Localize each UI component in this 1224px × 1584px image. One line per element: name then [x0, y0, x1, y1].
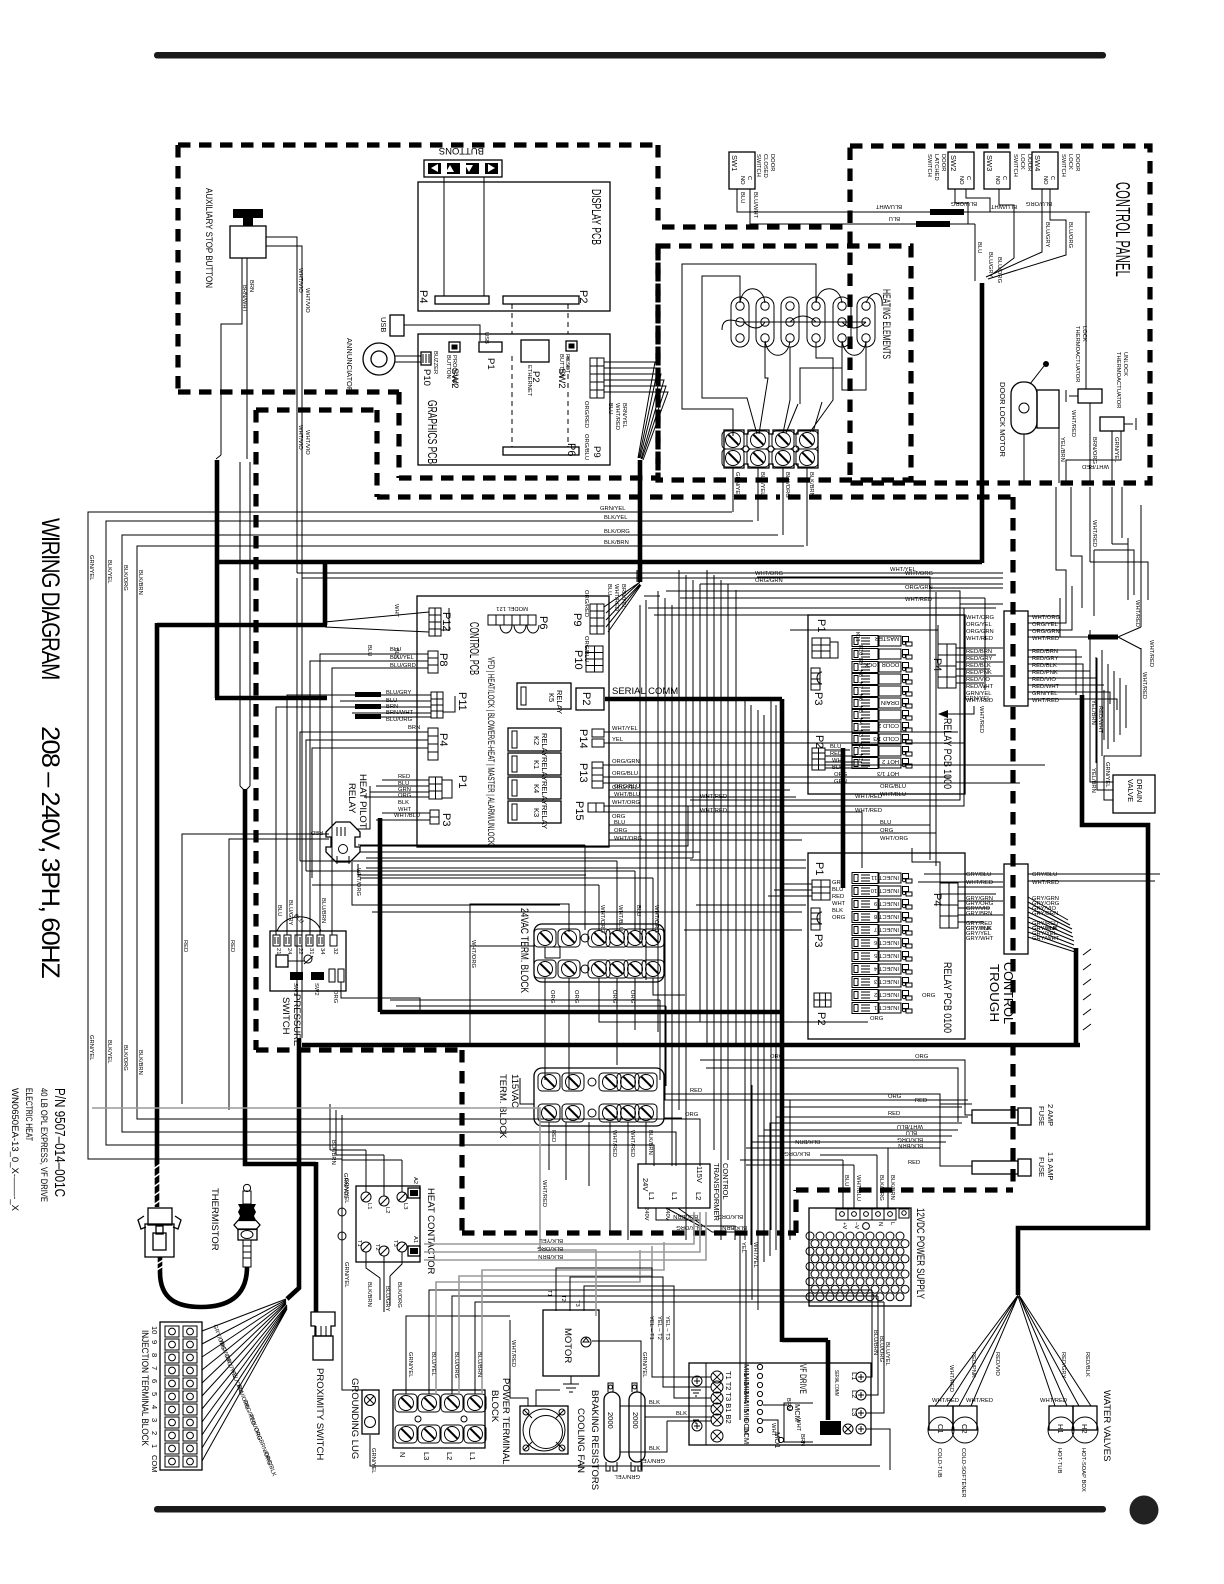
- svg-text:P8: P8: [437, 653, 449, 666]
- svg-text:L2: L2: [445, 1452, 454, 1460]
- svg-text:COOLING FAN: COOLING FAN: [575, 1408, 586, 1473]
- enclosure: heating elements (box B): [658, 246, 911, 480]
- svg-text:K1: K1: [857, 754, 863, 761]
- wire ORG/BLU group right of pcb: [609, 790, 936, 840]
- wire bundle top of control PCB (WHT/ORG etc.): [644, 577, 1003, 615]
- svg-text:HOT-SOAP BOX: HOT-SOAP BOX: [1080, 1448, 1086, 1492]
- svg-text:WHT/RED: WHT/RED: [966, 1398, 993, 1404]
- svg-text:WHT/ORG: WHT/ORG: [905, 571, 934, 577]
- svg-text:SWITCH: SWITCH: [280, 997, 291, 1035]
- svg-text:INJECT 11: INJECT 11: [871, 874, 899, 880]
- svg-text:P12: P12: [440, 612, 452, 632]
- wire heat pilot to PCB P1/P3: [352, 786, 806, 912]
- svg-text:WIRING DIAGRAM: WIRING DIAGRAM: [36, 518, 64, 679]
- svg-text:COLD-TUB: COLD-TUB: [936, 1448, 942, 1478]
- svg-text:GRN/YEL: GRN/YEL: [1113, 437, 1119, 463]
- relay K1: [508, 753, 561, 781]
- svg-text:INJECT 5: INJECT 5: [874, 952, 899, 958]
- svg-text:UNLOCK: UNLOCK: [1122, 352, 1128, 376]
- svg-text:MODEL 121: MODEL 121: [496, 605, 528, 611]
- harness: injection cable: [240, 462, 250, 791]
- svg-text:L3: L3: [402, 1203, 408, 1209]
- svg-text:BLK/ORG: BLK/ORG: [717, 1213, 743, 1219]
- svg-text:BLU: BLU: [739, 192, 745, 203]
- svg-text:SW3: SW3: [985, 155, 994, 171]
- harness: drain valve feed: [1018, 695, 1148, 1295]
- wire BLK/ORG: [122, 535, 778, 1166]
- heating element HE2: [756, 297, 774, 347]
- svg-text:ORG: ORG: [629, 990, 635, 1004]
- svg-text:SWITCH: SWITCH: [926, 154, 932, 177]
- svg-text:L1: L1: [647, 1192, 656, 1200]
- P9 connector on graphics PCB: [590, 358, 604, 398]
- svg-text:GRN/YEL: GRN/YEL: [342, 1173, 348, 1199]
- svg-text:BLU/YEL: BLU/YEL: [390, 655, 415, 661]
- svg-text:HEAT CONTACTOR: HEAT CONTACTOR: [425, 1188, 436, 1275]
- svg-text:ORG/BLU: ORG/BLU: [880, 784, 906, 790]
- svg-text:C: C: [965, 176, 971, 180]
- svg-text:GROUNDING LUG: GROUNDING LUG: [349, 1378, 360, 1459]
- thermistor cable braid upper: [138, 1160, 260, 1307]
- svg-text:LOCK: LOCK: [1019, 154, 1025, 170]
- svg-text:8: 8: [150, 1353, 159, 1357]
- svg-text:GRY/WHT: GRY/WHT: [1032, 936, 1060, 942]
- svg-text:WHT/RED: WHT/RED: [1148, 640, 1154, 667]
- wire PSU feeds: [740, 1148, 888, 1209]
- injection fan wires: [202, 1299, 287, 1461]
- svg-text:BRN: BRN: [785, 1398, 791, 1410]
- svg-text:PROXIMITY SWITCH: PROXIMITY SWITCH: [314, 1368, 325, 1460]
- svg-text:WHT/RED: WHT/RED: [700, 794, 727, 800]
- svg-text:WHT/ORG: WHT/ORG: [612, 800, 641, 806]
- P9 wire fan to harness: [604, 362, 668, 460]
- svg-text:WHT/ORG: WHT/ORG: [755, 571, 784, 577]
- vent honeycomb: [806, 1232, 909, 1301]
- harness: bottom long run: [302, 1043, 1080, 1048]
- svg-text:WHT/VIO: WHT/VIO: [304, 430, 310, 455]
- heating element HE6: [857, 297, 875, 347]
- svg-text:P9: P9: [591, 446, 602, 458]
- svg-text:21: 21: [275, 948, 281, 954]
- svg-text:VALVE: VALVE: [1126, 779, 1135, 802]
- svg-text:DOOR: DOOR: [1026, 154, 1032, 171]
- element mid bus: [722, 316, 866, 330]
- svg-text:SW2: SW2: [556, 368, 567, 389]
- svg-text:RED/VIO: RED/VIO: [994, 1352, 1000, 1376]
- svg-text:31: 31: [308, 948, 314, 954]
- svg-text:2000: 2000: [606, 1412, 615, 1429]
- connector P1: [429, 777, 442, 799]
- svg-text:FUSE: FUSE: [1037, 1157, 1046, 1177]
- svg-text:BLK/ORG: BLK/ORG: [784, 1150, 810, 1156]
- svg-text:BLK/ORG: BLK/ORG: [537, 1245, 563, 1251]
- svg-text:ORG/RED: ORG/RED: [583, 401, 589, 428]
- display PCB board: [417, 182, 610, 311]
- connector P2 serial: [576, 688, 604, 710]
- enclosure: display/graphics PCB + auxiliary stop (box A): [178, 145, 658, 478]
- svg-text:BLU/GRY: BLU/GRY: [1044, 222, 1050, 247]
- wire aux stop right pair WHT/VIO: [266, 237, 302, 578]
- svg-text:GRN/YEL: GRN/YEL: [88, 1035, 94, 1061]
- svg-text:ORG/GRN: ORG/GRN: [966, 629, 994, 635]
- svg-text:RED/WHT: RED/WHT: [1097, 706, 1103, 734]
- svg-text:P3: P3: [440, 813, 452, 826]
- svg-text:SW2: SW2: [949, 155, 958, 171]
- svg-text:WHT/BLU: WHT/BLU: [617, 905, 623, 931]
- svg-text:FUSE: FUSE: [1037, 1106, 1046, 1126]
- svg-text:BLK: BLK: [832, 908, 843, 914]
- connector P2 (relay pcb 0100): [814, 993, 831, 1007]
- connector P3: [430, 810, 439, 824]
- svg-text:DRAIN: DRAIN: [1135, 779, 1144, 802]
- svg-text:2: 2: [150, 1431, 159, 1435]
- svg-text:N: N: [398, 1452, 407, 1457]
- svg-text:BLK/BRN: BLK/BRN: [889, 1175, 895, 1200]
- svg-text:RED/BRN: RED/BRN: [966, 649, 992, 655]
- connector P3 (relay pcb 1000): [811, 668, 822, 690]
- svg-text:GRN/YEL: GRN/YEL: [407, 1352, 413, 1378]
- svg-text:BLU/WHT: BLU/WHT: [752, 192, 758, 219]
- svg-text:H2: H2: [1080, 1424, 1089, 1434]
- svg-text:BLU/ORG: BLU/ORG: [386, 717, 413, 723]
- svg-text:BLU: BLU: [880, 820, 891, 826]
- svg-text:BLK/YEL: BLK/YEL: [106, 1040, 112, 1064]
- wire contactor feeds: [330, 1104, 402, 1196]
- svg-text:BLK: BLK: [676, 1411, 687, 1417]
- wires from lock devices down: [1024, 212, 1121, 483]
- svg-text:RED/VIO: RED/VIO: [966, 677, 990, 683]
- relay K3: [508, 801, 561, 829]
- svg-text:YEL – T2: YEL – T2: [656, 1316, 662, 1340]
- wire center risers extra: [390, 590, 806, 1235]
- svg-text:RED: RED: [832, 894, 844, 900]
- svg-text:ORG/BLU: ORG/BLU: [614, 784, 640, 790]
- svg-text:BLK/BRN: BLK/BRN: [330, 1140, 336, 1165]
- svg-text:CONTROL: CONTROL: [721, 1163, 730, 1200]
- svg-text:P1: P1: [456, 775, 468, 788]
- svg-text:H1: H1: [1056, 1424, 1065, 1434]
- door latched switch SW2: [926, 152, 974, 189]
- svg-text:INJECT 7: INJECT 7: [874, 926, 899, 932]
- svg-text:L2: L2: [850, 1390, 859, 1398]
- svg-text:24: 24: [286, 948, 292, 955]
- harness: proximity cable: [297, 578, 302, 1038]
- svg-text:P2: P2: [580, 692, 592, 705]
- bulkhead connector strip lower: [1004, 864, 1028, 954]
- svg-text:T1: T1: [546, 1290, 552, 1297]
- svg-text:SWITCH: SWITCH: [1060, 154, 1066, 177]
- svg-text:BUTTONS: BUTTONS: [439, 145, 484, 156]
- wire GRN/YEL ring path: [342, 1158, 366, 1390]
- enclosure: machine cabinet / control trough outline: [256, 410, 1013, 1233]
- svg-text:BLK/BRN: BLK/BRN: [795, 1138, 820, 1144]
- door lock switch SW3: [984, 152, 1032, 189]
- wire WHT/RED motor aux: [92, 1108, 596, 1316]
- svg-text:WHT/RED: WHT/RED: [611, 1130, 617, 1157]
- wire YEL pair down left of PSU: [740, 1085, 758, 1420]
- element jumper arcs: [740, 289, 882, 356]
- svg-text:P4: P4: [417, 290, 429, 303]
- svg-text:BLU/GRY: BLU/GRY: [287, 900, 293, 925]
- svg-text:RED/BLK: RED/BLK: [966, 663, 991, 669]
- connector P4: [428, 728, 438, 760]
- svg-text:P4: P4: [437, 733, 449, 746]
- svg-text:WHT/RED: WHT/RED: [541, 1180, 547, 1207]
- svg-text:ORG: ORG: [685, 1112, 699, 1118]
- connector P1 (relay pcb 1000): [812, 638, 838, 658]
- wire WHT/RED pair below relay pcb 1000: [690, 732, 964, 806]
- connector P13: [592, 762, 603, 788]
- svg-text:12VDC POWER SUPPLY: 12VDC POWER SUPPLY: [914, 1208, 926, 1299]
- svg-text:BLU/YEL: BLU/YEL: [430, 1352, 436, 1377]
- wire BLK braking leads: [620, 1406, 712, 1452]
- wire ORG to fuses: [688, 1060, 972, 1166]
- svg-text:K6: K6: [857, 694, 863, 701]
- svg-text:USB: USB: [483, 332, 489, 344]
- svg-text:K9: K9: [857, 658, 863, 665]
- relay K4: [508, 777, 561, 805]
- svg-text:INJECT 3: INJECT 3: [874, 978, 899, 984]
- wires out right of bulkhead upper: [1028, 586, 1117, 710]
- annunciator: [363, 343, 395, 375]
- water valve fan wires: [935, 1295, 1091, 1406]
- svg-text:THERMOACTUATOR: THERMOACTUATOR: [1115, 352, 1121, 408]
- harness: aux stop cable: [215, 460, 220, 698]
- svg-text:BLU/WHT: BLU/WHT: [875, 203, 902, 209]
- svg-text:P4: P4: [931, 893, 943, 906]
- svg-text:L1: L1: [366, 1203, 372, 1209]
- svg-text:RELAY PCB 1000: RELAY PCB 1000: [941, 718, 953, 789]
- svg-text:P6: P6: [537, 616, 549, 629]
- svg-text:INJECT 4: INJECT 4: [873, 965, 899, 971]
- wire 24VAC bottom drops: [545, 978, 868, 1090]
- svg-text:GRY/BLU: GRY/BLU: [1032, 872, 1057, 878]
- svg-text:P11: P11: [456, 692, 468, 711]
- svg-text:RED/PNK: RED/PNK: [970, 1352, 976, 1378]
- svg-text:WHT/RED: WHT/RED: [614, 403, 620, 430]
- svg-text:BLU/GRY: BLU/GRY: [987, 252, 993, 277]
- svg-text:BLU: BLU: [614, 820, 625, 826]
- harness: trough exit cable (very thick): [1074, 948, 1079, 1045]
- svg-text:RED: RED: [229, 940, 235, 952]
- svg-text:INJECT 1: INJECT 1: [874, 1004, 899, 1010]
- svg-text:WHT/RED: WHT/RED: [510, 1340, 516, 1367]
- svg-text:WHT: WHT: [393, 604, 399, 618]
- svg-text:WHT/ORG: WHT/ORG: [599, 905, 605, 934]
- svg-text:+V: +V: [841, 1222, 847, 1229]
- svg-text:GRN/YEL: GRN/YEL: [641, 1352, 647, 1378]
- connector P15: [588, 803, 604, 812]
- svg-text:BLU: BLU: [906, 1129, 917, 1135]
- svg-text:DISPLAY PCB: DISPLAY PCB: [589, 189, 604, 245]
- svg-text:BLK/ORG: BLK/ORG: [784, 472, 790, 498]
- svg-text:P10: P10: [572, 650, 584, 670]
- svg-text:INJECT 10: INJECT 10: [871, 887, 899, 893]
- svg-text:SWITCH: SWITCH: [755, 154, 761, 177]
- connector P8: [428, 651, 438, 673]
- svg-text:ORG: ORG: [614, 828, 628, 834]
- wire feeds into pressure switch: [276, 654, 431, 1012]
- svg-text:WHT/RED: WHT/RED: [966, 880, 993, 886]
- svg-text:BRN/WHT: BRN/WHT: [241, 285, 247, 313]
- svg-text:BLK/YEL: BLK/YEL: [759, 472, 765, 496]
- wire P12 to WHT/BLK fan: [325, 612, 429, 632]
- svg-text:WHT/RED: WHT/RED: [978, 706, 984, 733]
- svg-text:DOOR: DOOR: [1074, 154, 1080, 171]
- svg-text:C: C: [1049, 176, 1055, 180]
- svg-text:BLU/WHT: BLU/WHT: [990, 203, 1017, 209]
- svg-text:BRN: BRN: [248, 280, 254, 292]
- svg-text:K2: K2: [532, 736, 541, 745]
- svg-text:COM: COM: [150, 1455, 159, 1473]
- svg-text:WHT/RED: WHT/RED: [966, 636, 993, 642]
- door lock motor: [998, 361, 1059, 457]
- wire contactor to elements risers: [366, 1252, 402, 1312]
- svg-text:ORG: ORG: [398, 793, 412, 799]
- wire motor aux GRN/YEL: [592, 1341, 641, 1470]
- svg-text:RED: RED: [690, 1088, 702, 1094]
- svg-text:BLK/YEL: BLK/YEL: [106, 560, 112, 584]
- svg-text:K8: K8: [857, 670, 863, 677]
- door lock switch SW4: [1032, 152, 1080, 189]
- USB P1: [479, 342, 502, 352]
- svg-text:BLU: BLU: [830, 744, 841, 750]
- svg-text:GRN/YEL: GRN/YEL: [600, 506, 626, 512]
- svg-text:P3: P3: [812, 692, 824, 705]
- svg-text:THERMOACTUATOR: THERMOACTUATOR: [1074, 326, 1080, 382]
- heating element HE5: [833, 297, 851, 347]
- svg-text:DOOR LOCK MOTOR: DOOR LOCK MOTOR: [998, 382, 1007, 457]
- svg-text:P6: P6: [565, 443, 577, 456]
- connector P9 (control pcb): [590, 604, 604, 634]
- svg-text:RED/GRY: RED/GRY: [966, 656, 992, 662]
- svg-text:L2: L2: [694, 1192, 703, 1200]
- svg-text:WHT/RED: WHT/RED: [1082, 463, 1109, 469]
- svg-text:GRY/BLU: GRY/BLU: [966, 872, 991, 878]
- serial comm connector: [820, 1421, 841, 1435]
- wire BLK/BRN: [137, 546, 804, 1166]
- svg-text:INJECT 8: INJECT 8: [874, 913, 899, 919]
- svg-text:BLK/BRN: BLK/BRN: [366, 1282, 372, 1307]
- svg-text:C1: C1: [936, 1424, 945, 1434]
- svg-text:BLU/ORG: BLU/ORG: [950, 200, 977, 206]
- thermistor plug connector: [148, 1208, 172, 1225]
- svg-text:BLU: BLU: [276, 905, 282, 916]
- svg-text:TROUGH: TROUGH: [987, 964, 1002, 1022]
- svg-text:3: 3: [150, 1418, 159, 1422]
- svg-text:RED: RED: [550, 1130, 556, 1142]
- reset button SW2: [566, 341, 577, 351]
- svg-text:ORG/GRN: ORG/GRN: [755, 578, 783, 584]
- svg-text:SW2: SW2: [449, 368, 460, 389]
- svg-text:NO: NO: [739, 176, 745, 185]
- wire risers right side: [1056, 487, 1122, 616]
- thick jumper relay1000 P2 down to relay0100 P1: [841, 748, 846, 888]
- svg-text:SWITCH: SWITCH: [1012, 154, 1018, 177]
- svg-text:K3: K3: [857, 730, 863, 737]
- svg-text:T2: T2: [560, 1295, 566, 1302]
- svg-text:BLU/GRY: BLU/GRY: [384, 1286, 390, 1311]
- heating element HE1: [731, 297, 749, 347]
- svg-text:WHT/YEL: WHT/YEL: [612, 726, 639, 732]
- svg-text:YEL/BRN: YEL/BRN: [1090, 700, 1096, 725]
- svg-text:ORG/GRN: ORG/GRN: [612, 759, 640, 765]
- svg-text:YEL/BRN: YEL/BRN: [1090, 768, 1096, 793]
- svg-text:WHT/ORG: WHT/ORG: [355, 868, 361, 897]
- svg-text:HOT 1/3: HOT 1/3: [877, 770, 899, 776]
- lock thermoactuator: [1066, 326, 1102, 403]
- svg-text:YEL – T3: YEL – T3: [664, 1316, 670, 1340]
- element harness loops: [682, 264, 866, 436]
- svg-text:CONTROL PANEL: CONTROL PANEL: [1111, 182, 1133, 277]
- svg-text:RELAY: RELAY: [346, 783, 357, 814]
- wire relay0100 P4 to bulkhead: [912, 848, 1003, 922]
- svg-text:RED: RED: [908, 1160, 920, 1166]
- svg-text:32: 32: [332, 948, 338, 954]
- relay K5: [517, 683, 571, 714]
- svg-text:BLK/YEL: BLK/YEL: [604, 515, 628, 521]
- fuse F2 1.5 AMP: [972, 1152, 1055, 1180]
- wire fan harness into P9: [604, 560, 641, 632]
- svg-text:K1: K1: [532, 760, 541, 769]
- svg-text:1: 1: [150, 1444, 159, 1448]
- svg-text:WHT/BLU: WHT/BLU: [614, 792, 640, 798]
- svg-text:2000: 2000: [631, 1412, 640, 1429]
- svg-text:BLU/BRN: BLU/BRN: [476, 1352, 482, 1377]
- svg-text:BLK: BLK: [398, 800, 409, 806]
- wire band to 24VAC: [358, 845, 700, 858]
- svg-text:BLU/ORG: BLU/ORG: [453, 1352, 459, 1379]
- svg-text:SW2: SW2: [313, 983, 319, 996]
- svg-text:ORG: ORG: [770, 1054, 784, 1060]
- wire SW1 BLU/WHT run: [737, 189, 1090, 224]
- svg-text:BLU: BLU: [366, 645, 372, 656]
- svg-text:K4: K4: [857, 718, 863, 726]
- svg-text:L2: L2: [384, 1207, 390, 1213]
- wire 24VAC feeds from top: [300, 845, 653, 930]
- bottom rule bar: [154, 1506, 1106, 1513]
- grounding lug: [349, 1378, 379, 1459]
- svg-text:A2: A2: [412, 1177, 418, 1184]
- svg-text:BLK/ORG: BLK/ORG: [604, 529, 630, 535]
- door closed switch SW1: [729, 152, 775, 189]
- svg-text:ORG: ORG: [832, 915, 846, 921]
- left terminals T1 T2 T3 B1 B2: [711, 1371, 723, 1383]
- svg-text:L1: L1: [850, 1372, 859, 1380]
- svg-text:YEL: YEL: [740, 1242, 746, 1254]
- svg-text:BLU/ORG: BLU/ORG: [996, 257, 1002, 284]
- wire loop rect left of 24VAC block: [470, 904, 569, 1045]
- svg-text:WHT/RED: WHT/RED: [1091, 520, 1097, 547]
- svg-text:240V: 240V: [643, 1207, 649, 1221]
- svg-text:RED: RED: [915, 1098, 927, 1104]
- svg-text:COLD 2: COLD 2: [878, 722, 899, 728]
- connector P12: [429, 608, 449, 636]
- svg-text:INJECTION TERMINAL BLOCK: INJECTION TERMINAL BLOCK: [139, 1330, 150, 1447]
- svg-text:GRN/YEL: GRN/YEL: [343, 1262, 349, 1288]
- svg-text:COLD-SOFTENER: COLD-SOFTENER: [960, 1448, 966, 1498]
- svg-text:BLU: BLU: [976, 242, 982, 253]
- USB socket: [390, 315, 404, 336]
- auxiliary stop button SW: [203, 188, 266, 288]
- svg-text:POWER TERMINAL: POWER TERMINAL: [500, 1378, 511, 1464]
- wire transformer secondary: [656, 1208, 740, 1245]
- svg-text:P4: P4: [931, 658, 943, 671]
- svg-text:P3: P3: [812, 934, 824, 947]
- svg-text:GRN/YEL: GRN/YEL: [370, 1448, 376, 1474]
- svg-text:BLU/ORG: BLU/ORG: [1067, 222, 1073, 249]
- svg-text:RED/BLK: RED/BLK: [1084, 1352, 1090, 1377]
